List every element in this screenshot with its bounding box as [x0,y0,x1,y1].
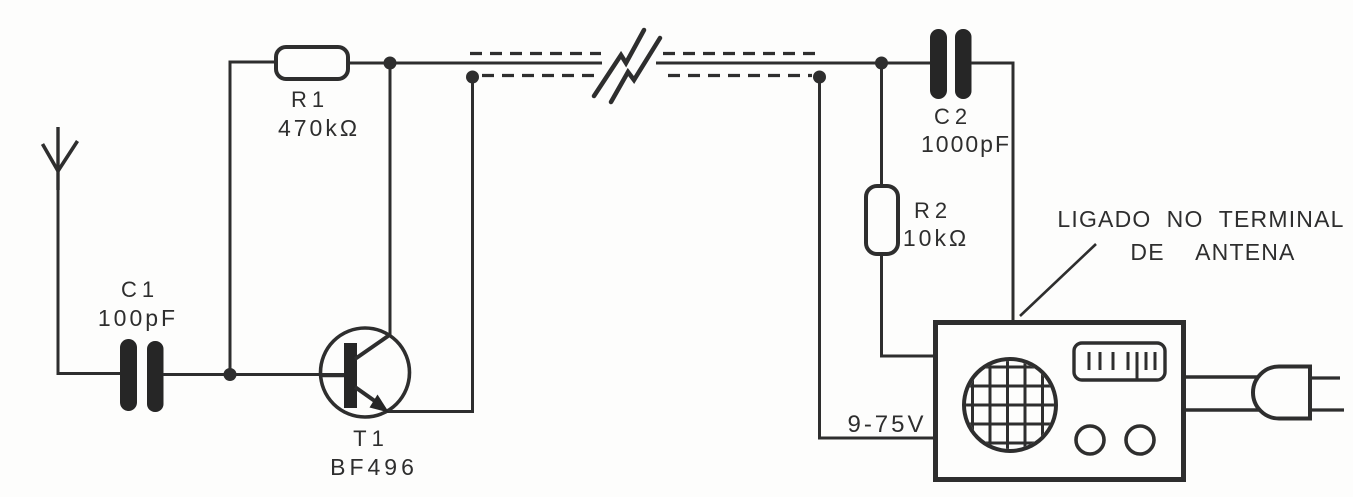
label C1 value [98,277,178,331]
wire node to R2 [880,63,883,186]
power plug [1253,367,1310,419]
svg-text:9-75V: 9-75V [847,411,926,438]
radio receiver box [936,323,1184,480]
power cord top [1186,375,1259,378]
svg-text:R2: R2 [914,198,952,223]
svg-text:R1: R1 [291,87,329,112]
label C2 value [921,104,1011,157]
wire R1 to cable (center conductor, left of break) [348,62,602,65]
node dot shield right [813,71,826,84]
cable break symbol [594,30,660,102]
cable shield dashed bottom right [668,74,812,77]
capacitor C2 [930,29,972,99]
resistor R1 [276,47,348,79]
wire collector drop [389,63,392,335]
radio knob left [1076,426,1104,454]
node dot emitter junction [466,71,479,84]
svg-text:DE ANTENA: DE ANTENA [1130,239,1295,265]
antenna [43,127,78,190]
wire C2 to radio antenna terminal [971,63,1013,322]
svg-text:LIGADO NO TERMINAL: LIGADO NO TERMINAL [1057,206,1344,232]
wire antenna to C1 [58,188,120,374]
plug prong top [1310,376,1340,379]
wire C1 to T1 base [163,373,344,376]
node dot R2 junction [875,57,888,70]
wire shield to radio (battery line) [820,77,939,438]
wire emitter riser [384,77,473,412]
svg-text:C2: C2 [934,104,972,129]
svg-text:T1: T1 [353,426,389,451]
radio speaker [960,355,1060,455]
cable shield dashed top left [470,52,601,55]
node dot collector junction [384,57,397,70]
svg-text:10kΩ: 10kΩ [903,225,969,251]
resistor R2 [866,186,898,254]
transistor T1 [321,328,410,417]
svg-text:C1: C1 [121,277,159,302]
wire R2 to radio [882,254,939,356]
capacitor C1 [120,339,164,412]
annotation text [1057,206,1344,265]
annotation pointer line [1020,244,1096,316]
svg-text:BF496: BF496 [330,454,418,480]
radio knob right [1126,426,1154,454]
cable shield dashed top right [663,52,821,55]
power cord bottom [1186,408,1261,411]
cable shield dashed bottom left [482,74,597,77]
svg-text:1000pF: 1000pF [921,131,1011,157]
label R2 value [903,198,969,251]
radio dial [1074,343,1165,380]
plug prong bottom [1310,408,1344,411]
cable center conductor, right of break [656,62,930,65]
svg-text:470kΩ: 470kΩ [278,115,360,141]
node junction dot base/C1 [224,368,237,381]
svg-text:100pF: 100pF [98,305,178,331]
wire node up to R1 [230,62,275,375]
label R1 value [278,87,360,141]
label T1 value [330,426,418,480]
